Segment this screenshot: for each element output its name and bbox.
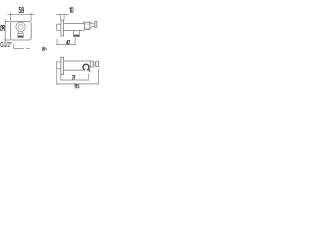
- svg-text:G1/2": G1/2": [0, 40, 11, 49]
